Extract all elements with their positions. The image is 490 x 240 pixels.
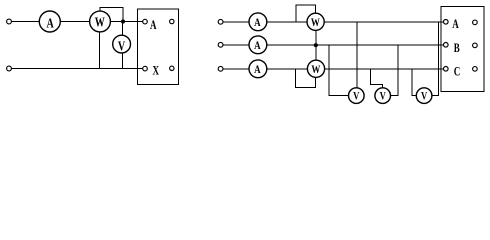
terminal T2 (left circuit, bottom input) — [7, 66, 12, 71]
junction dot on phase B wire — [314, 43, 318, 47]
wattmeter W2 (phase A) — [307, 13, 324, 30]
voltmeter V2 (across A-B) — [349, 88, 365, 104]
wire phase B junction down to wattmeter W3 — [315, 45, 317, 61]
voltage-coil wire of wattmeter W1 down to bottom wire — [99, 32, 101, 69]
wire phase A wattmeter W2 to box terminal A — [324, 21, 443, 23]
wire phase C tap down to voltmeter V4 left side — [412, 69, 416, 96]
svg-text:X: X — [153, 64, 160, 78]
svg-text:A: A — [254, 17, 261, 29]
wire voltmeter V1 down to bottom wire — [122, 53, 124, 69]
svg-text:A: A — [452, 18, 459, 32]
bottom wire of left circuit T2 to terminal X — [12, 68, 143, 70]
terminal C of right box — [444, 67, 449, 72]
svg-text:A: A — [46, 15, 53, 31]
svg-text:A: A — [254, 40, 261, 52]
current-coil bridge of wattmeter W1 — [100, 8, 123, 22]
wire phase C input terminal to ammeter A4 — [223, 68, 249, 70]
wire voltmeter V4 right side up to phase A — [432, 22, 439, 96]
load box (left, winding A-X under test) — [138, 9, 179, 85]
svg-text:V: V — [421, 90, 428, 103]
wire voltmeter V3 right side up to phase B — [391, 45, 398, 96]
wire phase C wattmeter W3 to box terminal C — [325, 68, 444, 70]
voltmeter V4 (across C-A) — [416, 88, 432, 104]
svg-text:W: W — [95, 14, 105, 30]
wire voltmeter V2 left side to phase B tap — [329, 45, 348, 96]
svg-text:A: A — [150, 19, 157, 33]
wattmeter W1 (left circuit) — [90, 11, 111, 32]
wire junction down to voltmeter V1 — [122, 22, 124, 36]
ammeter A1 (left circuit) — [39, 11, 60, 32]
ammeter A2 (phase A) — [249, 13, 267, 31]
wire phase A ammeter to wattmeter W2 — [267, 21, 307, 23]
wire phase A input terminal to ammeter A2 — [223, 21, 249, 23]
svg-text:V: V — [353, 90, 360, 103]
svg-text:A: A — [254, 64, 261, 76]
current-coil bridge of wattmeter W2 — [296, 5, 316, 22]
svg-text:B: B — [454, 42, 460, 56]
voltage-coil wire of W2 down to phase B junction — [315, 30, 317, 44]
wire phase A tap down to voltmeter V2 top — [356, 22, 358, 88]
svg-text:V: V — [118, 38, 125, 54]
wire T1 to ammeter A1 — [12, 21, 40, 23]
wire phase B ammeter to box terminal B — [267, 44, 444, 46]
secondary terminal (right box right side, middle) — [473, 43, 478, 48]
secondary terminal (right box right side, top) — [473, 20, 478, 25]
terminal X of left box — [143, 66, 148, 71]
secondary terminal (right box right side, bottom) — [473, 67, 478, 72]
junction dot (left circuit top node) — [121, 19, 125, 23]
secondary terminal a (left box right side, top) — [170, 19, 174, 23]
terminal T1 (left circuit, top input) — [7, 19, 12, 24]
svg-text:C: C — [454, 65, 461, 79]
terminal A of left box — [143, 19, 148, 24]
wire ammeter A1 to wattmeter W1 — [60, 21, 89, 23]
wattmeter W3 (phase C) — [307, 60, 324, 77]
terminal U3 (right circuit phase C input) — [218, 66, 223, 71]
ammeter A3 (phase B) — [249, 36, 267, 54]
current-coil bridge of wattmeter W3 — [296, 69, 316, 88]
terminal U1 (right circuit phase A input) — [218, 19, 223, 24]
wire phase C tap down to voltmeter V3 top hook — [371, 69, 383, 88]
voltmeter V3 (across B-C) — [375, 88, 391, 104]
svg-text:W: W — [311, 64, 320, 76]
terminal A of right box — [444, 20, 449, 25]
voltmeter V1 (left circuit) — [113, 35, 131, 53]
secondary terminal x (left box right side, bottom) — [170, 66, 174, 70]
terminal B of right box — [444, 43, 449, 48]
svg-text:V: V — [380, 90, 387, 103]
wire wattmeter W1 to load box terminal A — [111, 21, 143, 23]
svg-text:W: W — [311, 17, 320, 29]
wire phase C ammeter to wattmeter W3 — [267, 68, 308, 70]
terminal U2 (right circuit phase B input) — [218, 42, 223, 47]
three-phase load box (right) — [441, 7, 484, 92]
wire phase B input terminal to ammeter A3 — [223, 44, 249, 46]
ammeter A4 (phase C) — [249, 60, 267, 78]
